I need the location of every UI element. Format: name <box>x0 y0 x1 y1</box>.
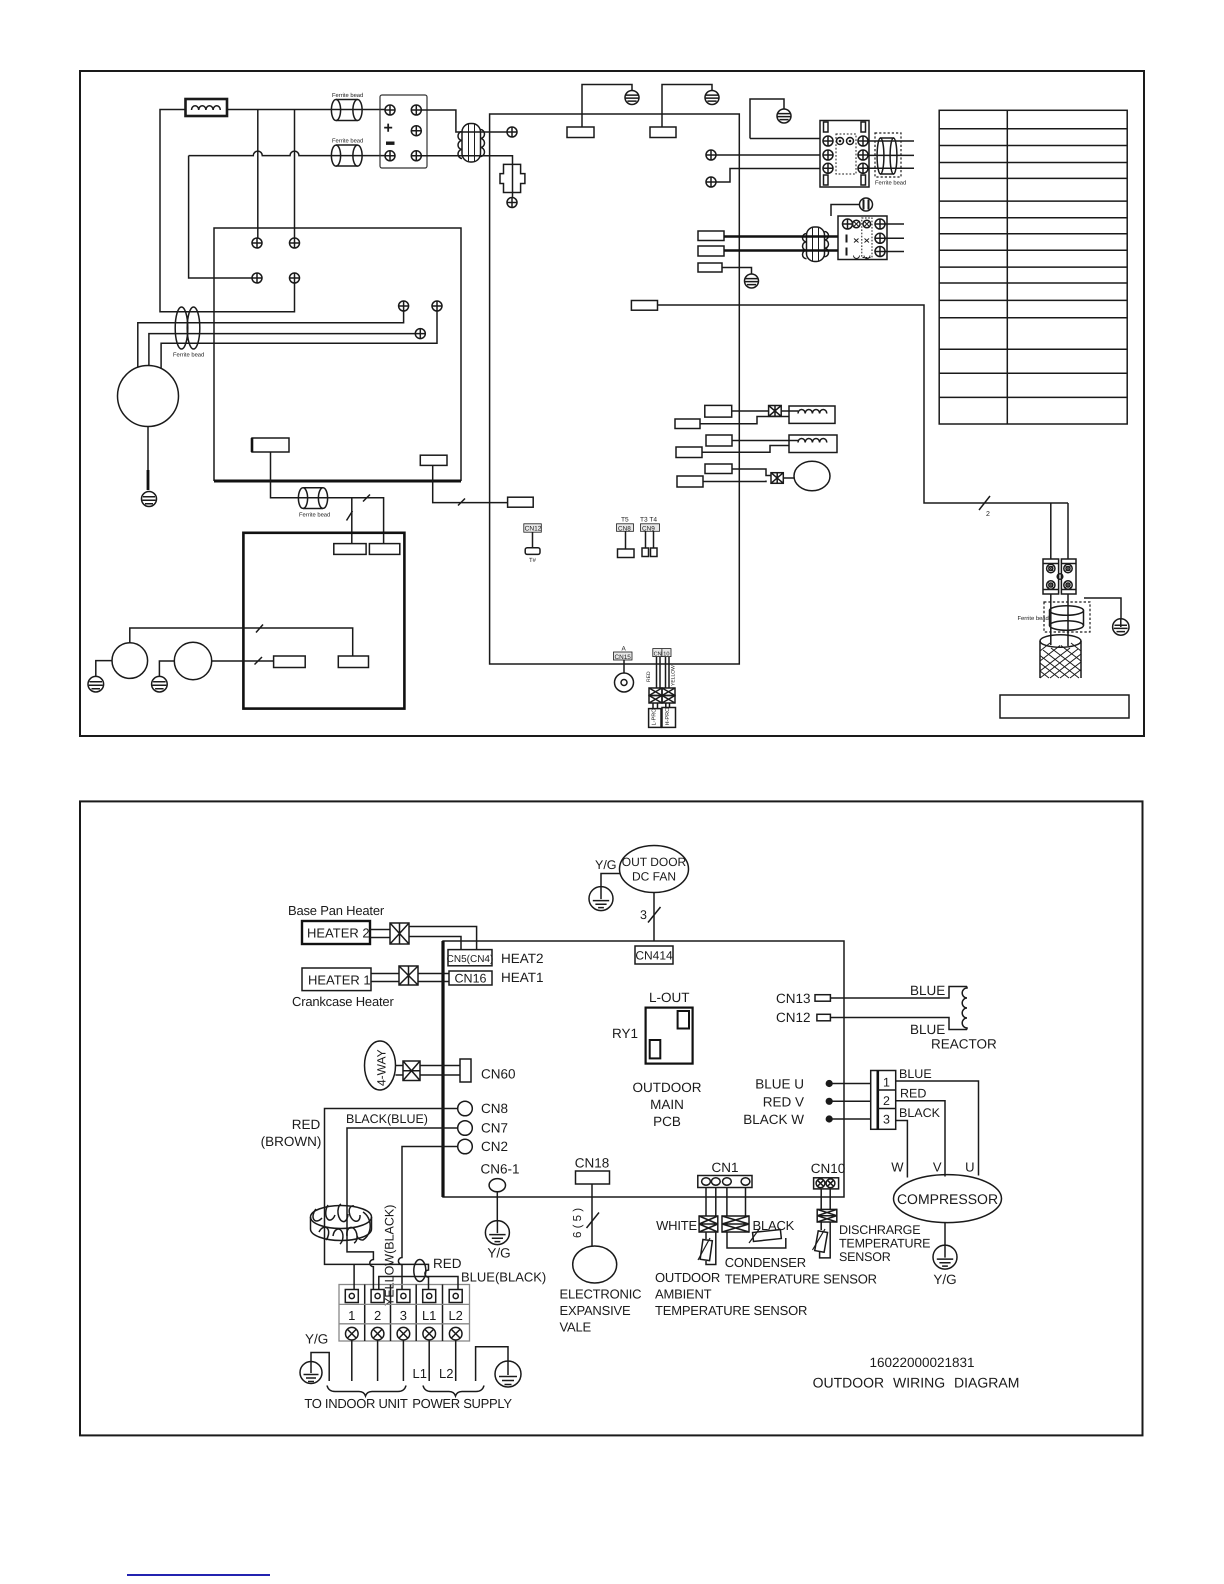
heater load H2 <box>789 435 837 453</box>
ground G7 <box>152 676 168 692</box>
wires TB down <box>352 1340 456 1381</box>
svg-text:Base Pan Heater: Base Pan Heater <box>288 903 385 918</box>
TB screws <box>346 1327 359 1340</box>
svg-text:1: 1 <box>348 1308 355 1323</box>
wire CN18 to valve with slash 6(5) <box>591 1184 593 1246</box>
svg-text:BLACK: BLACK <box>899 1106 941 1120</box>
box1 inner unit <box>214 228 461 481</box>
wire ground to indoor bundle <box>311 1353 329 1382</box>
svg-text:T5: T5 <box>621 517 629 524</box>
transformer T1 coil <box>458 124 485 163</box>
motor wire W through ferrite <box>161 311 437 369</box>
wires pair2 to heater H2 <box>702 441 798 453</box>
connector node circle C <box>706 150 716 160</box>
outdoor dc fan <box>620 846 689 893</box>
connector rect R13 <box>631 301 657 311</box>
svg-text:OUT DOOR: OUT DOOR <box>622 855 687 869</box>
svg-text:L1: L1 <box>413 1366 427 1381</box>
DC power terminal block with + and - <box>380 95 427 168</box>
wire V to compressor <box>896 1101 945 1177</box>
svg-text:CONDENSER: CONDENSER <box>725 1255 806 1270</box>
brace POWER SUPPLY <box>423 1386 484 1397</box>
connector rect R5 <box>698 263 722 272</box>
svg-text:ELECTRONIC: ELECTRONIC <box>560 1287 642 1302</box>
ground CN6-1 Y/G <box>485 1221 509 1245</box>
W V U labels <box>891 1160 974 1175</box>
svg-text:L1: L1 <box>422 1308 436 1323</box>
border frame bottom diagram <box>80 801 1143 1435</box>
wires pair1 to heater H1 <box>700 411 789 424</box>
relay block RY-A <box>820 121 869 188</box>
svg-text:TEMPERATURE SENSOR: TEMPERATURE SENSOR <box>655 1303 807 1318</box>
svg-text:BLACK(BLUE): BLACK(BLUE) <box>346 1112 428 1126</box>
connector CN1 <box>698 1160 752 1188</box>
svg-text:CN60: CN60 <box>481 1067 516 1082</box>
slash marks <box>347 495 371 521</box>
svg-text:RED V: RED V <box>763 1095 804 1110</box>
connector CN414 <box>635 946 673 964</box>
connector CN10 <box>811 1161 846 1189</box>
svg-text:Y/G: Y/G <box>305 1332 328 1347</box>
motor wire V through ferrite <box>149 334 415 366</box>
fuse connector FH1 <box>399 966 418 985</box>
svg-text:YELLOW: YELLOW <box>671 665 677 686</box>
svg-text:6 ( 5 ): 6 ( 5 ) <box>572 1208 584 1238</box>
wires RY-B to list <box>885 224 904 252</box>
connector CN7 <box>458 1121 508 1136</box>
svg-text:VALE: VALE <box>560 1320 592 1335</box>
TB clamp squares <box>345 1290 462 1303</box>
UVW terminal block <box>871 1071 896 1130</box>
transformer T2 coil <box>803 227 829 262</box>
ground compressor Y/G <box>933 1245 957 1269</box>
BLUE(BLACK) jumper terminal 2 to L2 <box>379 1277 458 1290</box>
svg-text:HEATER 1: HEATER 1 <box>308 973 371 988</box>
wire D to relay RY-A <box>716 169 820 183</box>
svg-text:A: A <box>622 646 627 653</box>
L-PRO box <box>649 703 661 727</box>
ferrite bead FB3 <box>173 307 204 359</box>
svg-text:CN1: CN1 <box>711 1160 738 1175</box>
box1 bottom bold edge <box>214 480 461 483</box>
fuse F1 <box>769 406 782 417</box>
wire fan to CN414 with slash 3 <box>653 893 655 942</box>
wire CN6-1 to ground <box>496 1192 498 1221</box>
connector CN2 <box>458 1139 508 1154</box>
4-WAY valve coil <box>365 1041 396 1090</box>
varistor cross component <box>500 164 525 197</box>
svg-text:TEMPERATURE SENSOR: TEMPERATURE SENSOR <box>725 1272 877 1287</box>
ground G8 <box>1113 619 1129 635</box>
BLACK W node <box>743 1112 871 1127</box>
connector node circle A <box>507 127 517 137</box>
svg-text:HEAT1: HEAT1 <box>501 970 544 985</box>
wire R6 down through bead FB5 <box>271 452 349 498</box>
bold wire R3 to RY-B <box>724 235 838 237</box>
relay RY-A terminals <box>823 136 833 146</box>
wires terminal to shielded cable <box>1051 594 1068 646</box>
connector CN15 label <box>614 646 633 661</box>
ferrite bead FB6 dashed <box>1018 602 1091 632</box>
relay RY1 <box>646 1008 693 1064</box>
svg-text:Ferrite bead: Ferrite bead <box>173 352 204 359</box>
wires CN1 down <box>706 1188 746 1217</box>
svg-text:CN12: CN12 <box>525 526 542 533</box>
wires CN-dual to protectors <box>657 657 670 688</box>
HEATER 1 <box>302 968 371 991</box>
wire CN12 to reactor <box>830 1018 967 1030</box>
svg-text:TO INDOOR UNIT: TO INDOOR UNIT <box>304 1396 408 1411</box>
svg-text:T3 T4: T3 T4 <box>640 517 657 524</box>
wire CN7 black-blue <box>347 1128 458 1245</box>
svg-text:U: U <box>965 1160 974 1175</box>
svg-text:OUTDOOR: OUTDOOR <box>633 1080 702 1095</box>
discharge sensor connector <box>817 1209 837 1222</box>
HEATER 2 <box>302 921 370 944</box>
wire U to compressor <box>896 1081 979 1176</box>
wires heater2 to CN5 <box>370 927 477 950</box>
svg-text:EXPANSIVE: EXPANSIVE <box>560 1303 631 1318</box>
ferrite bead FB1 <box>331 92 363 121</box>
wire CN8 red-brown <box>325 1109 458 1246</box>
svg-text:CN15: CN15 <box>615 654 632 661</box>
wire M3 to R11 with slash <box>212 660 274 662</box>
electronic expansion valve <box>573 1246 617 1283</box>
svg-text:HEATER 2: HEATER 2 <box>307 926 370 941</box>
wire W2 to surge path <box>421 156 512 165</box>
ground bracket G2 <box>662 85 719 115</box>
svg-text:1: 1 <box>883 1076 890 1090</box>
svg-text:CN6-1: CN6-1 <box>480 1162 519 1177</box>
ground right Y/G <box>495 1361 521 1387</box>
connector rect B <box>675 419 700 429</box>
ground fan Y/G <box>589 887 613 911</box>
wire R5 to ground G4 <box>722 268 752 275</box>
svg-text:W: W <box>891 1160 904 1175</box>
svg-text:Ferrite bead: Ferrite bead <box>299 512 330 519</box>
svg-text:RED: RED <box>433 1256 462 1271</box>
ferrite bead FB4 dashed <box>875 133 906 187</box>
svg-text:DC FAN: DC FAN <box>632 870 676 884</box>
svg-text:CN12: CN12 <box>776 1010 811 1025</box>
fuse circle component <box>860 198 873 211</box>
svg-text:OUTDOOR WIRING DIAGRAM: OUTDOOR WIRING DIAGRAM <box>813 1375 1020 1391</box>
connector rect R4 <box>698 246 724 256</box>
wires CN10 down <box>821 1189 830 1210</box>
svg-text:4-WAY: 4-WAY <box>375 1049 389 1086</box>
fuse connector FH2 <box>390 923 409 944</box>
connector CN60 <box>460 1059 516 1082</box>
wire R13 to outdoor terminal with slash label 2 <box>658 305 1069 559</box>
toroid line filter <box>311 1204 372 1244</box>
fan motor M1 <box>118 366 179 427</box>
terminal screws of DC block <box>385 105 395 115</box>
outdoor link terminal block <box>1043 559 1076 594</box>
ELECTRONIC EXPANSIVE VALE caption <box>560 1287 642 1335</box>
outdoor main PCB box <box>443 941 844 1197</box>
svg-text:L-PRO: L-PRO <box>652 708 658 726</box>
BLACK sensor connector <box>722 1216 749 1232</box>
wire fuse to relay RY-B <box>831 205 860 217</box>
label rect empty <box>1000 695 1129 718</box>
connector rect D <box>676 447 702 458</box>
connector rect F <box>677 476 703 487</box>
svg-text:BLUE: BLUE <box>899 1067 932 1081</box>
wire W2 neutral with hops <box>189 151 385 156</box>
ground G4 <box>745 274 759 288</box>
H-PRO box <box>662 703 676 727</box>
svg-text:BLUE(BLACK): BLUE(BLACK) <box>461 1270 546 1285</box>
brace TO INDOOR UNIT <box>327 1386 406 1397</box>
wire fan to ground <box>601 874 620 887</box>
svg-text:CN414: CN414 <box>635 949 673 963</box>
connector CN13 <box>776 991 830 1006</box>
border frame top diagram <box>80 71 1144 736</box>
svg-text:CN13: CN13 <box>776 991 811 1006</box>
svg-text:PCB: PCB <box>653 1114 681 1129</box>
connector CN16 <box>449 971 492 986</box>
connector rect E <box>705 464 732 474</box>
wire toroid right to terminal 2 <box>347 1245 373 1290</box>
motor wire U through ferrite <box>138 311 404 368</box>
wires pair3 to fan M4 <box>703 469 771 482</box>
wire compressor to ground <box>944 1223 946 1246</box>
connector CN12 label <box>524 524 542 564</box>
ground G6 <box>88 676 104 692</box>
box1 terminal screws <box>252 238 262 248</box>
OUTDOOR AMBIENT TEMPERATURE SENSOR caption <box>655 1270 807 1318</box>
bold wire R4 to RY-B <box>724 249 838 251</box>
ground G5 <box>142 492 157 507</box>
svg-text:L-OUT: L-OUT <box>649 990 690 1005</box>
wire W to compressor <box>896 1121 908 1178</box>
wire M3 to ground G7 <box>159 661 174 677</box>
shielded cable braid <box>1040 635 1081 678</box>
connector rect R7 <box>420 455 447 465</box>
protector fuse pair <box>649 688 675 703</box>
relay RY-B terminals <box>843 219 853 229</box>
fan motor M4 <box>783 461 830 491</box>
wire CN13 to reactor <box>830 987 967 999</box>
connector rect A <box>705 405 732 417</box>
svg-text:2: 2 <box>883 1094 890 1108</box>
RED (BROWN) label <box>261 1117 322 1149</box>
wire M2 to R12 with slash <box>130 628 353 656</box>
ground bracket G1 <box>582 85 639 115</box>
connector CN6-1 <box>480 1162 519 1192</box>
ferrite bead FB2 <box>331 138 363 167</box>
svg-text:WHITE: WHITE <box>656 1218 697 1233</box>
wire G3 stem to relay RY-A <box>750 138 820 140</box>
svg-text:CN 10: CN 10 <box>654 651 670 657</box>
connector rect R3 <box>698 231 724 241</box>
connector CN9 label T3 T4 <box>640 517 660 557</box>
connector rect R9 <box>334 544 366 555</box>
connector node circle D <box>706 177 716 187</box>
svg-text:CN2: CN2 <box>481 1139 508 1154</box>
buzzer <box>615 660 634 692</box>
ground left Y/G <box>300 1362 322 1384</box>
wire toroid left to terminal 1 and L1 RED jumper <box>325 1245 429 1290</box>
svg-text:2: 2 <box>986 511 990 518</box>
svg-text:RED: RED <box>646 671 652 682</box>
svg-text:Ferrite bead: Ferrite bead <box>332 138 363 145</box>
svg-text:Ferrite bead: Ferrite bead <box>332 92 363 99</box>
svg-text:Y/G: Y/G <box>487 1246 510 1261</box>
wires RY-A to list <box>869 141 914 168</box>
main PCB box (indoor) <box>490 114 740 664</box>
svg-text:OUTDOOR: OUTDOOR <box>655 1270 720 1285</box>
connector rect R12 <box>338 656 368 668</box>
OUTDOOR MAIN PCB caption <box>633 1080 702 1129</box>
svg-text:CN18: CN18 <box>575 1156 610 1171</box>
svg-text:RY1: RY1 <box>612 1026 638 1041</box>
wire CN2 yellow-black <box>398 1147 457 1290</box>
connector CN8 label T5 <box>617 517 635 558</box>
wire W1 live line top <box>160 110 385 312</box>
svg-text:BLUE: BLUE <box>910 983 945 998</box>
svg-text:Y/G: Y/G <box>933 1272 956 1287</box>
discharge thermistor <box>813 1222 831 1258</box>
connector rect R2 <box>650 114 676 138</box>
svg-text:(BROWN): (BROWN) <box>261 1134 322 1149</box>
svg-text:POWER SUPPLY: POWER SUPPLY <box>412 1396 512 1411</box>
svg-text:16022000021831: 16022000021831 <box>869 1355 974 1370</box>
heater load H1 <box>781 406 835 423</box>
svg-text:3: 3 <box>883 1113 890 1127</box>
connector CN12b <box>776 1010 830 1025</box>
svg-text:CN16: CN16 <box>455 972 487 986</box>
condenser thermistor <box>727 1228 786 1248</box>
svg-text:RED: RED <box>900 1087 926 1101</box>
fuse connector F4W <box>403 1061 420 1081</box>
connector rect R1 <box>567 114 594 138</box>
DISCHRARGE TEMPERATURE SENSOR caption <box>839 1223 930 1264</box>
fuse F2 <box>771 473 783 484</box>
wire branch at node x258 <box>257 110 259 239</box>
connector rect R11 <box>274 656 306 668</box>
reactor coil <box>962 987 967 1030</box>
connector CN-dual label <box>653 649 671 658</box>
svg-text:BLUE: BLUE <box>910 1022 945 1037</box>
wires 4way to CN60 <box>396 1066 461 1076</box>
svg-text:2: 2 <box>374 1308 381 1323</box>
connector CN5(CN4) <box>447 950 494 966</box>
RED V node <box>763 1095 871 1110</box>
svg-text:CN8: CN8 <box>481 1101 508 1116</box>
outdoor ambient thermistor <box>698 1232 716 1265</box>
wire to ground G8 <box>1084 598 1121 619</box>
relay block RY-B <box>838 216 887 260</box>
svg-text:DISCHRARGE: DISCHRARGE <box>839 1223 920 1237</box>
connector CN18 <box>575 1156 610 1185</box>
connector CN8 <box>458 1101 508 1116</box>
connector node circle B <box>507 198 517 208</box>
svg-text:MAIN: MAIN <box>650 1097 684 1112</box>
svg-text:+: + <box>384 120 393 137</box>
ferrite bead FB5 <box>298 488 330 519</box>
compressor <box>894 1175 1002 1223</box>
svg-text:SENSOR: SENSOR <box>839 1250 891 1264</box>
fan motor M3 <box>174 642 211 679</box>
svg-text:V: V <box>933 1160 942 1175</box>
svg-text:H-PRO: H-PRO <box>665 707 671 726</box>
legend table <box>939 110 1127 424</box>
motor M1 earth wire <box>147 427 149 471</box>
connector rect R8 <box>508 497 534 507</box>
ground bracket G3 <box>750 99 791 139</box>
inductor L1 (line filter choke) <box>186 99 228 116</box>
wire junction to R9 with slash <box>348 498 384 544</box>
ferrite ring <box>414 1260 426 1282</box>
svg-text:BLUE U: BLUE U <box>755 1077 804 1092</box>
footer link line <box>127 1574 270 1576</box>
CONDENSER TEMPERATURE SENSOR caption <box>725 1255 877 1287</box>
svg-text:L2: L2 <box>439 1366 453 1381</box>
svg-text:CN9: CN9 <box>642 525 655 532</box>
wire from W2 corner down to box1 terminal <box>189 156 252 278</box>
wires heater1 to CN16 <box>371 974 449 982</box>
svg-text:Y/G: Y/G <box>595 858 617 872</box>
svg-text:L2: L2 <box>448 1308 462 1323</box>
svg-text:CN10: CN10 <box>811 1161 846 1176</box>
wire R7 to R8 with slash <box>433 465 508 502</box>
svg-text:Ferrite bead: Ferrite bead <box>1018 615 1049 622</box>
wire M2 to ground G6 <box>96 661 112 677</box>
box2 display unit <box>243 533 404 709</box>
connector rect R10 <box>369 544 399 555</box>
svg-text:CN5(CN4): CN5(CN4) <box>447 954 494 965</box>
svg-text:3: 3 <box>640 908 647 922</box>
fan motor M2 <box>112 643 148 679</box>
svg-text:AMBIENT: AMBIENT <box>655 1287 712 1302</box>
svg-text:BLACK W: BLACK W <box>743 1112 804 1127</box>
svg-text:CN7: CN7 <box>481 1121 508 1136</box>
BLUE U node <box>755 1077 871 1092</box>
svg-text:HEAT2: HEAT2 <box>501 951 544 966</box>
svg-text:COMPRESSOR: COMPRESSOR <box>897 1191 998 1207</box>
wire branch at node x295 <box>294 110 296 239</box>
svg-text:T#: T# <box>529 557 537 564</box>
main terminal block TB <box>339 1285 470 1342</box>
connector rect C <box>706 435 732 446</box>
L1 L2 labels below <box>413 1366 454 1381</box>
svg-text:REACTOR: REACTOR <box>931 1037 997 1052</box>
svg-text:Ferrite bead: Ferrite bead <box>875 180 906 187</box>
svg-text:3: 3 <box>400 1308 407 1323</box>
svg-text:CN8: CN8 <box>618 525 631 532</box>
svg-text:Crankcase Heater: Crankcase Heater <box>292 994 394 1009</box>
wire C to relay RY-A <box>716 154 820 156</box>
connector rect R6 <box>252 438 289 452</box>
svg-text:RED: RED <box>292 1117 321 1132</box>
WHITE sensor connector <box>699 1216 718 1232</box>
wire from DC block to PCB input <box>421 110 507 132</box>
svg-text:TEMPERATURE: TEMPERATURE <box>839 1237 930 1251</box>
wire ground to power bundle <box>476 1347 508 1381</box>
